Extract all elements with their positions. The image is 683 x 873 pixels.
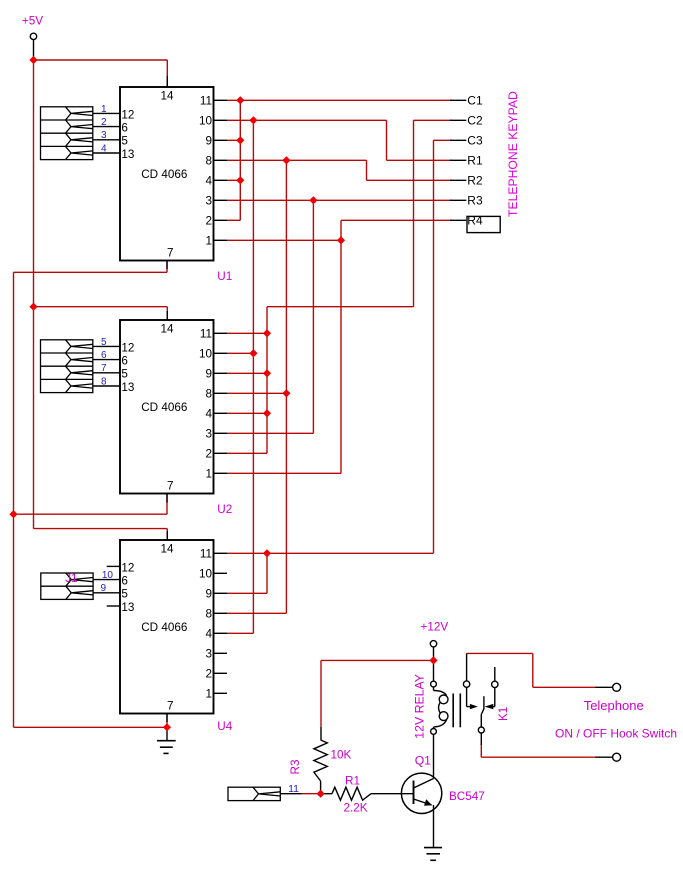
- svg-text:R1: R1: [345, 774, 360, 787]
- svg-text:+5V: +5V: [22, 15, 43, 28]
- svg-text:3: 3: [101, 130, 107, 141]
- svg-text:4: 4: [205, 175, 212, 188]
- svg-text:R3: R3: [467, 194, 483, 208]
- svg-text:7: 7: [167, 247, 174, 260]
- svg-text:5: 5: [121, 368, 128, 381]
- svg-text:3: 3: [205, 428, 212, 441]
- svg-text:12: 12: [121, 108, 134, 121]
- svg-text:1: 1: [205, 688, 212, 701]
- svg-text:2.2K: 2.2K: [344, 802, 368, 815]
- svg-text:2: 2: [101, 117, 107, 128]
- svg-text:11: 11: [200, 95, 212, 108]
- svg-text:13: 13: [121, 381, 134, 394]
- svg-text:1: 1: [205, 235, 212, 248]
- svg-text:8: 8: [205, 608, 212, 621]
- svg-text:TELEPHONE KEYPAD: TELEPHONE KEYPAD: [506, 91, 520, 217]
- svg-text:U4: U4: [217, 720, 232, 733]
- svg-text:CD 4066: CD 4066: [141, 168, 187, 181]
- svg-text:BC547: BC547: [449, 790, 485, 803]
- svg-text:14: 14: [160, 542, 174, 555]
- svg-text:U1: U1: [217, 270, 232, 283]
- svg-text:2: 2: [205, 668, 212, 681]
- svg-text:2: 2: [205, 448, 212, 461]
- svg-text:10: 10: [199, 115, 213, 128]
- svg-text:ON / OFF Hook Switch: ON / OFF Hook Switch: [555, 727, 677, 741]
- svg-text:R3: R3: [289, 760, 302, 775]
- svg-text:4: 4: [205, 408, 212, 421]
- svg-text:10: 10: [199, 348, 213, 361]
- svg-text:13: 13: [121, 601, 134, 614]
- svg-text:R2: R2: [467, 174, 483, 188]
- svg-text:C3: C3: [467, 134, 483, 148]
- svg-text:11: 11: [200, 328, 212, 341]
- svg-text:3: 3: [205, 648, 212, 661]
- svg-text:11: 11: [200, 548, 212, 561]
- svg-text:+12V: +12V: [421, 621, 449, 634]
- svg-text:J1: J1: [65, 572, 77, 585]
- svg-text:9: 9: [205, 368, 212, 381]
- svg-text:5: 5: [121, 588, 128, 601]
- svg-text:8: 8: [205, 388, 212, 401]
- svg-text:C2: C2: [467, 114, 483, 128]
- svg-text:CD 4066: CD 4066: [141, 621, 187, 634]
- svg-text:10K: 10K: [331, 749, 352, 762]
- svg-text:6: 6: [101, 350, 107, 361]
- svg-text:8: 8: [101, 376, 107, 387]
- svg-text:6: 6: [121, 122, 128, 135]
- svg-text:12: 12: [121, 561, 134, 574]
- svg-text:14: 14: [160, 322, 174, 335]
- svg-text:8: 8: [205, 155, 212, 168]
- svg-text:14: 14: [160, 89, 174, 102]
- svg-text:K1: K1: [497, 707, 510, 721]
- svg-text:Telephone: Telephone: [584, 698, 644, 713]
- svg-text:3: 3: [205, 195, 212, 208]
- svg-text:Q1: Q1: [415, 754, 431, 768]
- svg-text:CD 4066: CD 4066: [141, 401, 187, 414]
- svg-text:R4: R4: [467, 214, 483, 228]
- svg-text:R1: R1: [467, 154, 483, 168]
- svg-text:12: 12: [121, 341, 134, 354]
- svg-text:U2: U2: [217, 503, 232, 516]
- svg-text:7: 7: [167, 480, 174, 493]
- svg-text:4: 4: [205, 628, 212, 641]
- svg-text:12V RELAY: 12V RELAY: [413, 674, 427, 739]
- svg-text:11: 11: [288, 783, 299, 795]
- svg-text:13: 13: [121, 148, 134, 161]
- svg-text:10: 10: [102, 570, 114, 581]
- svg-text:7: 7: [167, 700, 174, 713]
- svg-text:7: 7: [101, 363, 107, 374]
- svg-text:2: 2: [205, 215, 212, 228]
- svg-text:1: 1: [205, 468, 212, 481]
- svg-text:6: 6: [121, 355, 128, 368]
- svg-text:9: 9: [205, 588, 212, 601]
- svg-text:4: 4: [101, 143, 107, 154]
- svg-text:1: 1: [101, 104, 107, 115]
- svg-text:6: 6: [121, 575, 128, 588]
- svg-text:9: 9: [205, 135, 212, 148]
- svg-text:10: 10: [199, 568, 213, 581]
- svg-text:9: 9: [101, 583, 107, 594]
- svg-text:C1: C1: [467, 94, 483, 108]
- svg-text:5: 5: [121, 135, 128, 148]
- svg-text:5: 5: [101, 337, 107, 348]
